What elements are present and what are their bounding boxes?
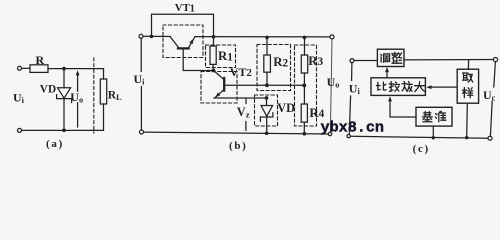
svg-text:R3: R3	[308, 54, 323, 68]
svg-text:VD: VD	[40, 83, 56, 95]
svg-text:ybx8.cn: ybx8.cn	[321, 119, 384, 137]
svg-text:VD: VD	[277, 101, 295, 115]
svg-text:VT2: VT2	[230, 65, 252, 79]
svg-text:VT1: VT1	[175, 2, 195, 14]
svg-text:(a): (a)	[46, 138, 64, 150]
svg-text:R2: R2	[273, 55, 288, 69]
svg-text:R: R	[36, 53, 45, 67]
svg-text:(b): (b)	[229, 140, 248, 152]
svg-text:(c): (c)	[413, 143, 430, 155]
svg-text:R1: R1	[218, 49, 233, 63]
